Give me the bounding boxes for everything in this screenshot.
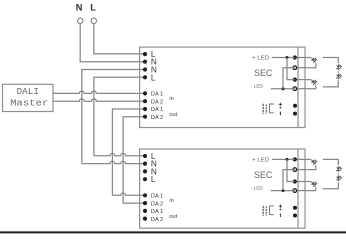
LED D21 <box>310 159 317 166</box>
U1 LEDset icon plus mark <box>279 103 282 106</box>
wire N into U2 pin2 (hops over DA feeds) <box>82 161 145 163</box>
svg-text:- LED: - LED <box>251 185 263 190</box>
driver U2 enclosure box <box>140 149 305 228</box>
U1 +LED internal wire <box>272 57 295 59</box>
driver U1 terminal strip separator line <box>297 47 299 127</box>
svg-text:L: L <box>151 174 156 184</box>
svg-text:L: L <box>90 3 96 13</box>
U1 -LED branch wire <box>283 68 295 89</box>
U1 +LED pin 1 stub <box>295 57 306 59</box>
U1 pin 5 (DA) terminal dot <box>143 91 147 95</box>
U2 pin 4 (L) terminal dot <box>143 177 147 181</box>
U1 +LED output terminal dot 1 <box>293 55 297 59</box>
LED D13 <box>336 64 342 70</box>
U2 +LED pin 1 stub <box>295 158 306 160</box>
svg-text:DA 2: DA 2 <box>151 99 163 105</box>
U2 -LED internal wire <box>271 190 295 192</box>
U2 -LED output terminal ring 2 <box>293 168 297 172</box>
U1 series LED string wire <box>323 58 339 87</box>
U1 LED string 2 top wire <box>306 79 311 81</box>
U1 pin 7 (DA) terminal dot <box>143 107 147 111</box>
U1 +LED branch wire <box>287 58 295 80</box>
U1 LEDset icon bracket <box>270 104 274 113</box>
U1 -LED output terminal ring 2 <box>293 66 297 70</box>
U2 +LED output terminal dot 3 <box>293 179 297 183</box>
DALI master box <box>3 84 54 111</box>
bottom border rule <box>0 231 346 233</box>
svg-text:DA 1: DA 1 <box>151 194 163 200</box>
U2 pin 5 (DA) terminal dot <box>143 193 147 197</box>
driver U2 terminal strip separator line <box>297 149 299 228</box>
U2 -LED pin 2 stub <box>295 169 306 171</box>
U2 +LED branch wire <box>287 159 295 181</box>
svg-text:SEC: SEC <box>254 169 273 180</box>
U1 -LED internal wire <box>271 88 295 90</box>
U2 pin 2 (N) terminal dot <box>143 162 147 166</box>
svg-text:in: in <box>169 198 173 204</box>
U1 LED string 1 top wire <box>306 57 311 59</box>
LED D14 <box>336 74 342 80</box>
U2 pin 8 (DA) terminal dot <box>143 217 147 221</box>
U2 pin 7 (DA) terminal dot <box>143 209 147 213</box>
svg-text:DA 1: DA 1 <box>151 92 163 98</box>
svg-text:DA 2: DA 2 <box>151 217 163 223</box>
U1 LED string 1 return wire <box>306 63 316 67</box>
U2 LED string 1 top wire <box>306 158 311 160</box>
DALI wire DA- to U1 (hops over N,L drops) <box>53 99 145 101</box>
svg-text:DALI: DALI <box>17 87 40 97</box>
U2 series LED string wire <box>323 159 339 188</box>
U2 LED string 2 return wire <box>306 187 316 190</box>
svg-text:out: out <box>169 112 177 118</box>
wire N to U1 pin2 <box>80 24 145 62</box>
mains terminal N <box>78 18 83 23</box>
U2 -LED junction dot <box>282 189 285 192</box>
svg-text:+ LED: + LED <box>252 56 269 62</box>
wire L loop-through U1 pin4 to U2 <box>94 77 145 156</box>
LED D12 <box>310 79 317 86</box>
svg-text:DA 2: DA 2 <box>151 115 163 121</box>
wire DA1 into U2 (hop over DA2 drop) <box>112 193 145 195</box>
U1 +LED junction dot <box>286 56 289 59</box>
svg-text:SEC: SEC <box>254 67 273 78</box>
U1 -LED pin 2 stub <box>295 67 306 69</box>
U1 pin 8 (DA) terminal dot <box>143 115 147 119</box>
U1 LEDset icon small text <box>263 104 266 114</box>
svg-text:DA 2: DA 2 <box>151 201 163 207</box>
U1 -LED junction dot <box>282 87 285 90</box>
U2 +LED pin 3 stub <box>295 181 306 183</box>
svg-text:DA 1: DA 1 <box>151 209 163 215</box>
wire L to U1 pin1 <box>94 24 145 54</box>
U2 +LED junction dot <box>286 158 289 161</box>
U1 +LED pin 3 stub <box>295 79 306 81</box>
mains terminal L <box>91 18 96 23</box>
U1 LEDset terminal dot upper <box>293 104 297 108</box>
U2 -LED pin 4 stub <box>295 190 306 192</box>
svg-text:Master: Master <box>10 98 48 108</box>
svg-text:in: in <box>169 96 173 102</box>
LED D23 <box>336 166 342 172</box>
U2 LEDset icon bracket <box>270 206 274 215</box>
driver U1 enclosure box <box>140 47 305 127</box>
U1 LEDset icon mid dot <box>280 107 282 109</box>
U2 pin 6 (DA) terminal dot <box>143 201 147 205</box>
wire DA1 out U1 to U2 DA1 in <box>112 109 145 195</box>
U2 LEDset terminal dot upper <box>293 206 297 210</box>
svg-text:+ LED: + LED <box>252 158 269 164</box>
U2 LEDset icon plus mark <box>279 205 282 208</box>
svg-text:out: out <box>169 214 177 220</box>
svg-text:L: L <box>151 72 156 82</box>
LED D22 <box>310 181 317 188</box>
U2 +LED internal wire <box>272 158 295 160</box>
U2 LEDset terminal dot lower <box>293 214 297 218</box>
U1 pin 3 (N) terminal dot <box>143 67 147 71</box>
U1 +LED output terminal dot 3 <box>293 78 297 82</box>
U2 LED string 2 top wire <box>306 181 311 183</box>
U1 LEDset terminal dot lower <box>293 112 297 116</box>
wire N loop-through U1 pin3 to U2 <box>82 70 145 164</box>
svg-text:DA 1: DA 1 <box>151 107 163 113</box>
U2 -LED branch wire <box>283 170 295 191</box>
U2 pin 1 (L) terminal dot <box>143 154 147 158</box>
U2 LED string 1 return wire <box>306 165 316 170</box>
U1 -LED pin 4 stub <box>295 88 306 90</box>
U2 +LED output terminal dot 1 <box>293 157 297 161</box>
U2 LEDset icon mid dot <box>280 209 282 211</box>
LED D24 <box>336 175 342 181</box>
U1 pin 1 (L) terminal dot <box>143 52 147 56</box>
wire L into U2 pin1 (hops over DA feeds) <box>94 153 145 155</box>
U2 -LED output terminal ring 4 <box>293 189 297 193</box>
U1 pin 4 (L) terminal dot <box>143 75 147 79</box>
wire DA2 out U1 to U2 DA2 in <box>123 117 145 203</box>
U2 pin 3 (N) terminal dot <box>143 169 147 173</box>
svg-text:N: N <box>76 3 83 13</box>
U1 LEDset icon minus mark <box>279 112 281 116</box>
U2 LEDset icon small text <box>263 206 266 216</box>
U1 LED string 2 return wire <box>306 85 316 88</box>
svg-text:- LED: - LED <box>251 84 263 89</box>
U2 LEDset icon minus mark <box>279 214 281 218</box>
U1 pin 2 (N) terminal dot <box>143 60 147 64</box>
U1 pin 6 (DA) terminal dot <box>143 99 147 103</box>
DALI wire DA+ to U1 (hops over N,L drops) <box>53 91 145 93</box>
U1 -LED output terminal ring 4 <box>293 87 297 91</box>
LED D11 <box>310 57 317 64</box>
